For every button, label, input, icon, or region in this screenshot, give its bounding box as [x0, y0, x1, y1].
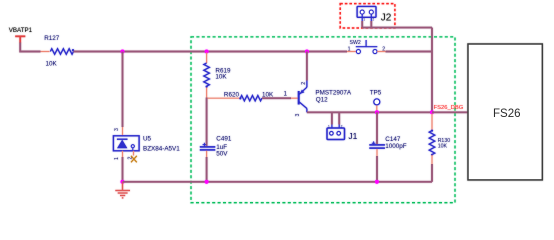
- wire R620 to Q12 base: [262, 97, 291, 99]
- capacitor C147: [369, 112, 407, 182]
- svg-text:1: 1: [284, 91, 288, 98]
- wire Q12 collector up to rail: [306, 52, 308, 81]
- resistor R127: [50, 49, 73, 55]
- switch SW2: [347, 40, 386, 54]
- svg-text:2: 2: [372, 18, 374, 22]
- svg-text:J2: J2: [381, 13, 392, 24]
- svg-text:R127: R127: [44, 35, 60, 42]
- svg-text:TP5: TP5: [370, 89, 382, 96]
- svg-text:J1: J1: [348, 131, 357, 141]
- zener diode U5 BZX84-A5V1: [113, 135, 180, 152]
- ground: [115, 182, 130, 198]
- svg-text:1: 1: [363, 18, 365, 22]
- wire right column: [431, 28, 433, 114]
- wire VBATP1 to R127: [20, 43, 40, 52]
- pin 2 no-connect X: [133, 151, 135, 156]
- pin 1 of U5: [122, 151, 124, 157]
- wire tee down to C491: [206, 98, 208, 147]
- pin 3 of U5: [122, 127, 124, 136]
- svg-text:1: 1: [114, 157, 120, 160]
- svg-text:C147: C147: [385, 136, 401, 143]
- wire R619 to R620 tee: [206, 88, 208, 98]
- wire branch rail to R619: [206, 53, 208, 64]
- svg-text:R620: R620: [224, 91, 240, 98]
- svg-text:Q12: Q12: [316, 97, 328, 104]
- svg-text:10K: 10K: [46, 60, 58, 67]
- pin 1 base lead: [291, 97, 299, 99]
- red dashed box around J2: [340, 4, 395, 28]
- svg-text:BZX84-A5V1: BZX84-A5V1: [143, 146, 180, 153]
- wire R620 lead: [208, 97, 240, 99]
- wire bottom rail: [123, 181, 433, 183]
- connector J1: [327, 112, 358, 141]
- wire branch to U5: [122, 52, 124, 128]
- pin lead R127 left: [41, 51, 50, 53]
- testpoint VBATP1 symbol: [15, 36, 25, 43]
- svg-text:2: 2: [382, 46, 385, 52]
- resistor R620: [240, 96, 262, 101]
- wire top rail: [74, 51, 348, 53]
- wire SW2 pin2 to right column: [386, 51, 433, 53]
- svg-text:U5: U5: [143, 135, 152, 142]
- resistor R130: [431, 114, 433, 131]
- node junction rail/Q12: [305, 49, 309, 53]
- svg-text:2: 2: [301, 82, 307, 85]
- connector J2: [357, 6, 392, 23]
- svg-text:SW2: SW2: [350, 40, 361, 46]
- svg-text:PMST2907A: PMST2907A: [315, 89, 351, 96]
- svg-text:10K: 10K: [215, 74, 227, 81]
- svg-text:1: 1: [348, 47, 351, 53]
- svg-text:1000pF: 1000pF: [385, 143, 407, 150]
- node junction bottom rail / C147: [375, 180, 379, 184]
- svg-text:3: 3: [114, 128, 120, 131]
- wire to FS26 box: [432, 111, 468, 113]
- svg-text:FS26: FS26: [493, 108, 521, 120]
- svg-text:50V: 50V: [216, 150, 228, 157]
- transistor Q12 PMST2907A: [295, 81, 352, 117]
- wire U5 to ground rail: [122, 157, 124, 182]
- green dashed region box: [191, 37, 455, 203]
- node junction rail/U5: [120, 49, 124, 53]
- wire J2 pins to right column: [362, 21, 371, 28]
- svg-text:C491: C491: [216, 135, 232, 142]
- FS26 block: [468, 44, 542, 180]
- node ground junction: [120, 180, 124, 184]
- node junction rail/R619: [205, 49, 209, 53]
- node junction TP5/C147/rail: [375, 110, 379, 114]
- svg-text:VBATP1: VBATP1: [9, 27, 33, 34]
- capacitor C491: [200, 135, 232, 181]
- svg-text:10K: 10K: [438, 144, 448, 150]
- wire emitter rail: [307, 111, 432, 113]
- svg-text:3: 3: [295, 114, 301, 117]
- resistor R619: [204, 63, 210, 86]
- svg-text:FS26_DBG: FS26_DBG: [434, 105, 464, 111]
- node junction right column / emitter rail: [430, 110, 434, 114]
- node junction bottom rail / C491: [205, 180, 209, 184]
